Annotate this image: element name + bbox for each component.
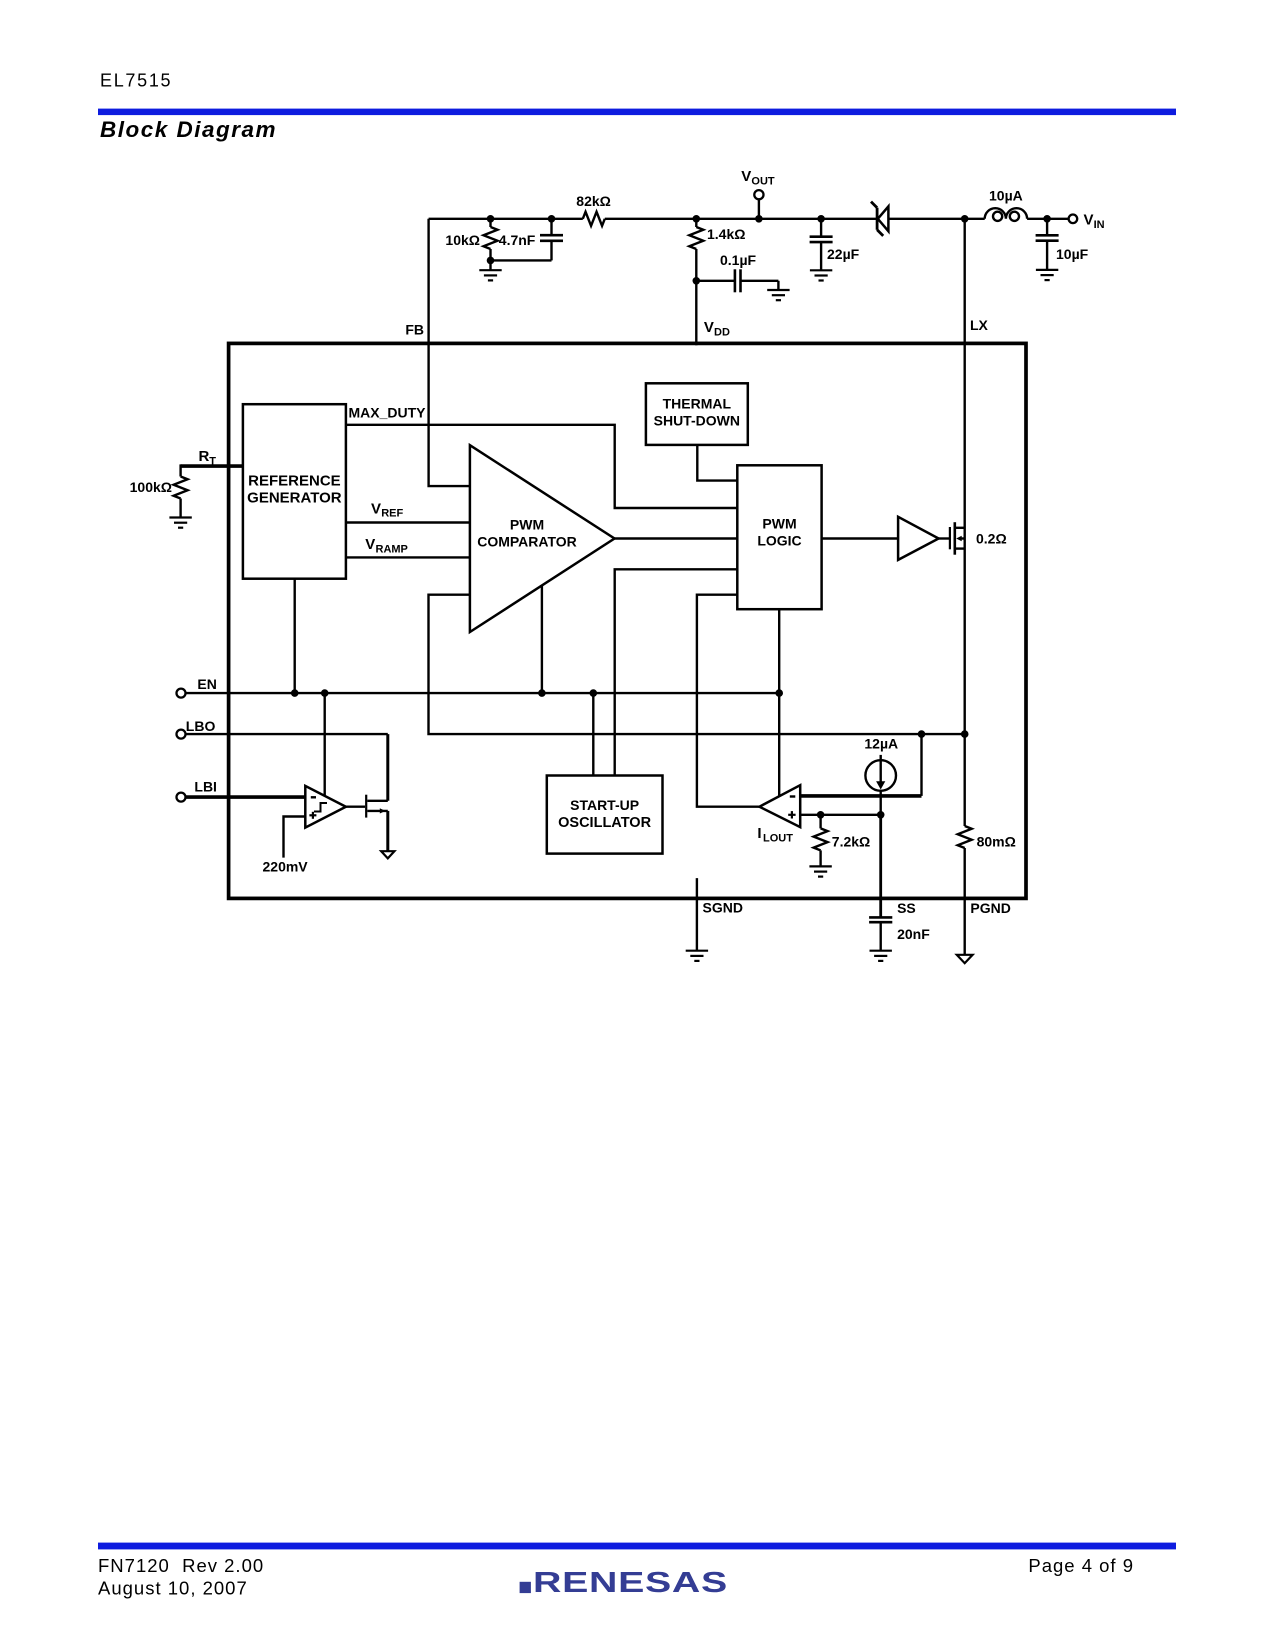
comparator U3 current limit (ILOUT) bbox=[757, 785, 800, 844]
node EN / U2 bbox=[321, 689, 329, 697]
svg-text:0.2Ω: 0.2Ω bbox=[976, 531, 1007, 547]
transistor M1 power NMOS with 0.2 ohm label bbox=[939, 522, 1007, 555]
resistor R1 10k ohm with value label bbox=[445, 219, 497, 261]
svg-text:THERMAL: THERMAL bbox=[663, 395, 732, 411]
wire EN line across IC bbox=[186, 692, 780, 694]
inductor L1 with 10uA label bbox=[985, 188, 1027, 221]
svg-text:SGND: SGND bbox=[703, 900, 743, 916]
PWM logic block bbox=[737, 465, 821, 609]
svg-text:REFERENCE: REFERENCE bbox=[248, 472, 341, 489]
ground below C4 bbox=[1036, 270, 1058, 280]
buffer U4 gate driver triangle bbox=[898, 517, 939, 560]
node sense rail / U3 minus bbox=[918, 730, 926, 738]
svg-text:4.7nF: 4.7nF bbox=[499, 232, 536, 248]
wire VDD drop into IC bbox=[695, 281, 697, 345]
wire PWM logic bottom down to U3 bbox=[778, 609, 780, 796]
wire LX stub to inductor bbox=[965, 218, 985, 220]
node U3 plus / R5 bbox=[817, 811, 825, 819]
start-up oscillator block bbox=[547, 776, 663, 854]
wire C1 bottom to R1 bottom bbox=[491, 259, 552, 261]
resistor R6 80m ohm sense with value label bbox=[958, 826, 1016, 850]
wire LX rail vertical (top rail down to 80m resistor) bbox=[964, 219, 966, 826]
wire LBO line to Q1 drain bbox=[186, 733, 388, 735]
svg-text:V: V bbox=[741, 168, 751, 185]
net SGND with ground bbox=[697, 878, 743, 950]
svg-text:REF: REF bbox=[381, 508, 403, 520]
wire LX rail below 80m to PGND bbox=[964, 848, 966, 955]
node EN / PWM logic bbox=[775, 689, 783, 697]
thermal shut-down block bbox=[646, 383, 748, 445]
wire U3 minus input (thick) up to sense rail bbox=[800, 734, 921, 796]
svg-text:V: V bbox=[371, 500, 381, 517]
pin label RT bbox=[199, 448, 217, 468]
wire U3 output to PWM logic bbox=[697, 595, 760, 807]
svg-text:22µF: 22µF bbox=[827, 246, 860, 262]
svg-text:PWM: PWM bbox=[510, 516, 544, 532]
wire top rail (82k to diode) bbox=[605, 218, 876, 220]
svg-text:Page 4 of 9: Page 4 of 9 bbox=[1028, 1555, 1134, 1576]
svg-text:10µA: 10µA bbox=[989, 188, 1023, 204]
resistor R3 1.4k ohm with value label bbox=[689, 219, 745, 281]
svg-text:FB: FB bbox=[405, 322, 424, 338]
svg-text:I: I bbox=[757, 825, 761, 842]
node sense rail / LX rail bbox=[961, 730, 969, 738]
svg-text:IN: IN bbox=[1094, 219, 1105, 231]
svg-text:OSCILLATOR: OSCILLATOR bbox=[558, 815, 651, 831]
wire top rail left segment (FB node to 82k) bbox=[429, 218, 583, 220]
svg-text:MAX_DUTY: MAX_DUTY bbox=[349, 405, 427, 421]
diode D1 (catch diode on VOUT rail) bbox=[871, 202, 888, 236]
wire LBI thick lead to comparator U2 bbox=[186, 795, 306, 799]
svg-text:V: V bbox=[704, 319, 714, 336]
node R1/C1 bottom bbox=[487, 257, 495, 265]
svg-text:T: T bbox=[209, 456, 216, 468]
ground below 20nF bbox=[870, 951, 892, 961]
svg-text:EL7515: EL7515 bbox=[100, 70, 172, 90]
wire inductor to VIN node bbox=[1027, 218, 1047, 220]
Renesas logo bbox=[520, 1567, 728, 1599]
node VOUT bbox=[755, 215, 763, 223]
svg-text:EN: EN bbox=[197, 676, 216, 692]
IC boundary box EL7515 bbox=[229, 343, 1026, 898]
wire reference generator bottom to EN line bbox=[294, 579, 296, 693]
capacitor C2 0.1uF with value label bbox=[696, 252, 778, 292]
resistor R2 82k ohm bbox=[576, 193, 611, 226]
svg-text:COMPARATOR: COMPARATOR bbox=[477, 534, 577, 550]
svg-text:V: V bbox=[365, 536, 375, 553]
node EN / PWM comparator bbox=[538, 689, 546, 697]
wire PWM logic output to gate buffer bbox=[822, 537, 899, 539]
wire FB drop from top rail into IC to PWM comparator input bbox=[429, 219, 470, 486]
net VRAMP from reference generator to PWM comparator bbox=[346, 536, 470, 557]
pin label VDD bbox=[704, 319, 730, 339]
node C1 top bbox=[548, 215, 556, 223]
svg-text:OUT: OUT bbox=[751, 176, 775, 188]
node VDD divider top bbox=[693, 215, 701, 223]
wire PWM comparator output to PWM logic bbox=[615, 537, 738, 539]
svg-text:80mΩ: 80mΩ bbox=[977, 834, 1016, 850]
ground right of C2 bbox=[767, 281, 789, 300]
capacitor C4 10uF with value label bbox=[1036, 219, 1089, 270]
current source I1 12uA bbox=[864, 736, 898, 815]
ground below R5 bbox=[809, 866, 831, 876]
ground below C3 bbox=[810, 270, 832, 280]
svg-text:START-UP: START-UP bbox=[570, 797, 639, 813]
svg-text:220mV: 220mV bbox=[263, 859, 309, 875]
footer blue rule bbox=[98, 1543, 1176, 1550]
svg-text:PGND: PGND bbox=[970, 900, 1010, 916]
reference generator block bbox=[243, 404, 346, 579]
wire start-up oscillator link to PWM logic bbox=[615, 569, 738, 775]
pin EN with open circle and label bbox=[177, 676, 217, 698]
pin LBI with open circle and label bbox=[177, 779, 217, 802]
op-amp U1 PWM comparator bbox=[470, 445, 615, 632]
svg-text:10kΩ: 10kΩ bbox=[445, 232, 480, 248]
capacitor C3 22uF with value label bbox=[810, 219, 860, 270]
node U3 plus / SS bbox=[877, 811, 885, 819]
terminal VIN with open circle bbox=[1047, 212, 1105, 232]
resistor R5 7.2k ohm with value label bbox=[814, 815, 871, 866]
svg-text:10µF: 10µF bbox=[1056, 246, 1089, 262]
comparator U2 low-battery comparator with hysteresis bbox=[305, 786, 346, 828]
svg-text:SS: SS bbox=[897, 900, 916, 916]
node EN / oscillator bbox=[590, 689, 598, 697]
ground below R1 bbox=[479, 260, 501, 280]
node FB divider top bbox=[487, 215, 495, 223]
node VIN bbox=[1043, 215, 1051, 223]
transistor Q1 LBO open-drain NMOS bbox=[346, 734, 388, 851]
pin RT: thick lead wire into reference generator bbox=[181, 464, 243, 468]
svg-text:V: V bbox=[1084, 212, 1094, 229]
svg-text:RAMP: RAMP bbox=[376, 543, 408, 555]
wire EN line down to U2 enable bbox=[324, 693, 326, 796]
net MAX_DUTY from reference generator to PWM logic bbox=[346, 405, 737, 509]
pin LBO with open circle and label bbox=[177, 718, 216, 739]
svg-text:LBI: LBI bbox=[194, 779, 217, 795]
net SS soft-start with 20nF capacitor bbox=[869, 815, 930, 951]
node C3 top bbox=[817, 215, 825, 223]
node 220mV reference into U2 plus input bbox=[263, 817, 309, 875]
svg-text:RENESAS: RENESAS bbox=[533, 1567, 728, 1599]
wire thermal shut-down to PWM logic bbox=[697, 445, 737, 481]
wire top rail (diode to LX node) bbox=[888, 218, 964, 220]
svg-text:100kΩ: 100kΩ bbox=[130, 479, 172, 495]
svg-text:R: R bbox=[199, 448, 210, 465]
ground arrow PGND bbox=[957, 955, 973, 963]
wire PWM comparator bottom to EN line bbox=[541, 586, 543, 693]
svg-text:August 10, 2007: August 10, 2007 bbox=[98, 1578, 248, 1599]
svg-text:DD: DD bbox=[714, 327, 730, 339]
net VREF from reference generator to PWM comparator bbox=[346, 500, 470, 522]
node EN / reference generator bbox=[291, 689, 299, 697]
ground arrow below Q1 source bbox=[381, 851, 394, 858]
resistor R4 100k ohm with value label bbox=[130, 464, 188, 517]
svg-text:0.1µF: 0.1µF bbox=[720, 252, 757, 268]
node VDD bbox=[693, 277, 701, 285]
terminal VOUT with open circle bbox=[741, 168, 775, 219]
svg-text:LOUT: LOUT bbox=[763, 833, 793, 845]
header blue rule bbox=[98, 109, 1176, 116]
wire EN line down to start-up oscillator bbox=[592, 693, 594, 775]
svg-text:7.2kΩ: 7.2kΩ bbox=[832, 834, 870, 850]
svg-text:82kΩ: 82kΩ bbox=[576, 193, 611, 209]
ground below R4 bbox=[169, 518, 191, 528]
svg-text:SHUT-DOWN: SHUT-DOWN bbox=[654, 413, 740, 429]
svg-text:LOGIC: LOGIC bbox=[757, 533, 801, 549]
node LX top bbox=[961, 215, 969, 223]
net slope compensation: PWM comparator lower input to current sense rail bbox=[429, 595, 965, 734]
svg-text:FN7120 Rev 2.00: FN7120 Rev 2.00 bbox=[98, 1555, 264, 1576]
svg-text:GENERATOR: GENERATOR bbox=[247, 489, 342, 506]
capacitor C1 4.7nF with value label bbox=[499, 219, 563, 261]
wire U3 plus input rail bbox=[800, 814, 881, 816]
svg-text:1.4kΩ: 1.4kΩ bbox=[707, 226, 745, 242]
svg-text:LX: LX bbox=[970, 317, 989, 333]
svg-text:12µA: 12µA bbox=[864, 736, 898, 752]
svg-text:LBO: LBO bbox=[186, 718, 216, 734]
ground below SGND bbox=[686, 951, 708, 961]
svg-text:Block Diagram: Block Diagram bbox=[100, 117, 277, 142]
svg-text:PWM: PWM bbox=[762, 516, 796, 532]
svg-text:20nF: 20nF bbox=[897, 926, 930, 942]
